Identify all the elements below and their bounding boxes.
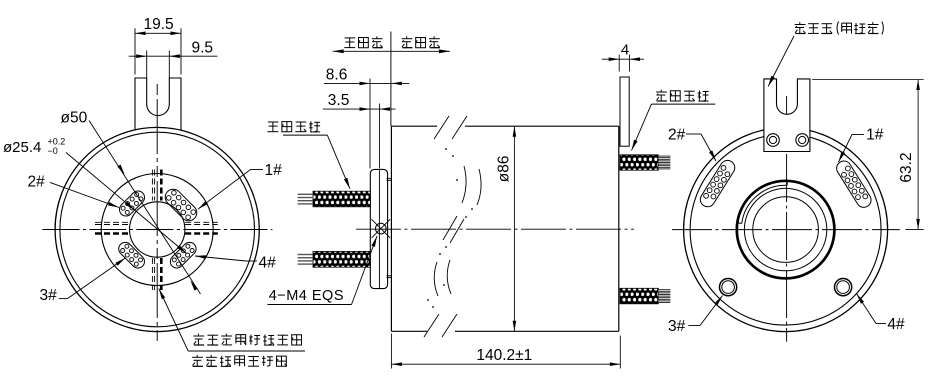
contact group 2# (NW) — [117, 188, 147, 218]
svg-text:4#: 4# — [887, 316, 905, 333]
rotor lead wire bundle bottom — [298, 251, 371, 267]
bore circle mid — [744, 188, 826, 270]
svg-text:140.2±1: 140.2±1 — [476, 347, 532, 364]
svg-text:−0: −0 — [48, 146, 58, 156]
dimension 63.2 extension line top — [812, 79, 924, 81]
middle view centerline — [356, 228, 634, 230]
label rotor lead wire — [268, 121, 350, 189]
svg-text:8.6: 8.6 — [326, 67, 348, 84]
break dots — [427, 148, 473, 308]
tab screw hole left — [767, 134, 780, 147]
dimension 63.2 extension line bottom — [905, 228, 923, 230]
bore thick ring — [737, 181, 835, 279]
label rotor side / stator side — [333, 32, 450, 127]
right view outer circle — [684, 128, 888, 332]
dia 50 leader line — [89, 121, 201, 295]
hub step bottom — [387, 276, 392, 278]
note: fix rotor with four screws — [159, 289, 305, 367]
svg-text:19.5: 19.5 — [144, 16, 174, 33]
rotor anti-rotation tab — [135, 78, 181, 131]
snap ring arc — [738, 181, 788, 223]
svg-text:2#: 2# — [668, 127, 686, 144]
svg-text:4#: 4# — [259, 255, 277, 272]
contact group 4# (SE) — [168, 240, 199, 271]
left view bore circle (dia 25.4) — [130, 202, 185, 257]
contact group 3# (SW) — [116, 240, 147, 271]
stator lead wire bundle top — [620, 155, 670, 170]
svg-text:4−M4 EQS: 4−M4 EQS — [269, 288, 344, 304]
svg-text:ø25.4: ø25.4 — [3, 139, 41, 156]
stator anti-rotation tab — [764, 79, 810, 152]
right view centerline vertical — [786, 96, 788, 342]
break arcs upper — [462, 166, 481, 205]
screw slot dashes 12 o'clock — [152, 170, 161, 201]
label stator lead wire — [632, 90, 716, 151]
screw slot dashes 3 o'clock — [185, 222, 218, 233]
hub step top — [387, 179, 392, 181]
left view centerline horizontal — [42, 229, 272, 231]
dimension 19.5 extension lines — [135, 28, 181, 74]
rotor lead wire bundle top — [298, 191, 371, 207]
wire bundle 1# (NE) — [834, 158, 874, 210]
dimension 63.2 — [898, 80, 920, 230]
dimension 4 extension lines — [619, 55, 629, 72]
rotor flange (side view) — [370, 169, 387, 288]
svg-text:4: 4 — [621, 42, 629, 59]
label 1# (right view) — [839, 127, 884, 163]
screw slot dashes 6 o'clock — [152, 258, 161, 290]
tab screw hole right — [796, 134, 809, 147]
break slashes top — [434, 116, 467, 139]
svg-text:+0.2: +0.2 — [48, 137, 66, 147]
break slashes middle — [443, 216, 464, 243]
stator body outline — [391, 126, 618, 331]
svg-text:63.2: 63.2 — [898, 152, 915, 182]
label 3# (left view) — [40, 258, 126, 304]
left view inner rim circle — [60, 132, 255, 327]
label 2# (left view) — [28, 174, 120, 208]
label dia 50 — [61, 110, 88, 127]
svg-text:2#: 2# — [28, 174, 46, 191]
break arcs lower — [434, 260, 451, 296]
wire bundle 2# (NW) — [698, 158, 738, 210]
left view centerline vertical — [156, 84, 158, 343]
4-M4 screw mark — [372, 219, 391, 238]
extension lines flange faces — [370, 79, 380, 169]
dia 25.4 leader line — [66, 153, 187, 254]
svg-text:3#: 3# — [668, 318, 686, 335]
label anti-rotation tab (adjustable) — [768, 22, 883, 87]
svg-text:3#: 3# — [40, 287, 58, 304]
dimension 140.2 — [391, 347, 620, 366]
label 3# (right view) — [668, 296, 723, 336]
dimension 8.6 — [324, 67, 409, 86]
label 1# (left view) — [198, 162, 282, 209]
left view outer housing circle — [55, 127, 259, 331]
dimension dia 86 — [496, 126, 517, 331]
dimension 9.5 — [129, 40, 218, 59]
svg-text:ø50: ø50 — [61, 110, 88, 127]
right view rim circle — [690, 134, 881, 325]
bore circle inner — [753, 197, 819, 263]
dimension 9.5 extension lines — [147, 51, 170, 79]
label 2# (right view) — [668, 127, 716, 162]
screw slot dashes 9 o'clock — [95, 222, 129, 233]
label 4# (left view) — [195, 255, 276, 272]
contact group 1# (NE) — [162, 186, 200, 224]
hole 4# (bottom right) — [835, 279, 852, 296]
label 4# (right view) — [857, 294, 906, 334]
dimension 140.2 extension lines — [391, 334, 620, 369]
dimension 4 — [602, 42, 644, 62]
left view contact circle (dia 50) — [101, 174, 213, 286]
dimension 3.5 — [323, 92, 396, 111]
svg-text:9.5: 9.5 — [192, 40, 214, 57]
svg-text:3.5: 3.5 — [328, 92, 350, 109]
stator lead wire bundle bottom — [620, 288, 670, 304]
svg-text:ø86: ø86 — [496, 156, 513, 183]
dimension 19.5 — [135, 16, 181, 35]
right view centerline horizontal — [672, 229, 900, 231]
svg-text:1#: 1# — [265, 162, 283, 179]
label dia 25.4 +0.2/-0 — [3, 137, 65, 157]
break slashes bottom — [424, 314, 457, 337]
label 4-M4 EQS — [268, 236, 378, 305]
svg-text:1#: 1# — [866, 127, 884, 144]
stator anti-rotation plate (side view) — [620, 77, 629, 146]
hole 3# (bottom left) — [720, 279, 737, 296]
